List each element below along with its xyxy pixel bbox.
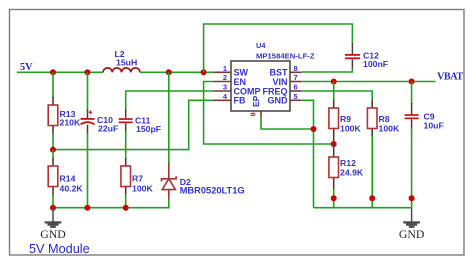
- svg-text:1: 1: [223, 64, 227, 73]
- svg-text:R7: R7: [132, 174, 143, 184]
- wire D2 column from SW: [168, 72, 170, 164]
- diode D2: [162, 163, 245, 199]
- node ground rail R7: [123, 205, 129, 211]
- resistor R14: [48, 158, 83, 195]
- wire C10 to ground rail: [87, 133, 89, 208]
- svg-text:U4: U4: [256, 41, 266, 50]
- capacitor C11: [119, 109, 161, 134]
- node SW rail junction for D2: [166, 69, 172, 75]
- pin 9 stub EP: [249, 111, 262, 118]
- svg-text:R8: R8: [379, 114, 390, 124]
- node 5V rail junction C10: [85, 69, 91, 75]
- wire BST pin to C12: [302, 69, 352, 73]
- svg-text:EN: EN: [234, 77, 247, 87]
- wire C10 column: [87, 72, 89, 110]
- capacitor C12: [345, 43, 388, 69]
- node FB junction: [50, 147, 56, 153]
- pin 6 stub: [290, 83, 302, 92]
- node EP GND junction: [311, 126, 317, 132]
- svg-text:100nF: 100nF: [363, 59, 388, 69]
- wire R12 to ground rail: [333, 189, 335, 208]
- resistor R8: [367, 100, 400, 138]
- inductor L2: [103, 49, 140, 72]
- svg-text:6: 6: [294, 83, 298, 92]
- wire D2 to ground rail corner: [53, 199, 169, 208]
- wire FB node to R14: [52, 150, 54, 159]
- svg-text:15uH: 15uH: [116, 58, 137, 68]
- svg-text:VIN: VIN: [272, 77, 287, 87]
- wire R7 to ground rail: [125, 194, 127, 208]
- wire COMP to C11: [126, 91, 214, 110]
- svg-text:R9: R9: [340, 114, 351, 124]
- wire EP to GND net: [261, 117, 314, 129]
- svg-text:7: 7: [294, 73, 298, 82]
- svg-text:3: 3: [223, 83, 227, 92]
- wire GND pin and EP down: [302, 100, 314, 207]
- node ground rail C10: [85, 205, 91, 211]
- svg-text:R12: R12: [340, 158, 356, 168]
- wire C11 to R7: [125, 131, 127, 159]
- svg-text:GND: GND: [399, 227, 425, 241]
- pin 3 stub: [214, 83, 232, 92]
- svg-text:100K: 100K: [132, 183, 153, 193]
- wire ground rail right: [314, 207, 412, 209]
- wire FREQ to R8: [302, 91, 372, 100]
- pin 8 stub: [290, 64, 302, 73]
- wire R13 to FB node: [52, 133, 54, 150]
- svg-text:FB: FB: [234, 96, 246, 106]
- svg-text:5V: 5V: [20, 62, 33, 73]
- pin 4 stub: [214, 92, 232, 101]
- svg-text:5: 5: [294, 92, 298, 101]
- node right rail C9: [409, 195, 415, 201]
- svg-text:10uF: 10uF: [424, 121, 444, 131]
- pin 5 stub: [290, 92, 302, 101]
- pin 7 stub: [290, 73, 302, 82]
- svg-text:24.9K: 24.9K: [340, 168, 364, 178]
- pin 1 stub: [214, 64, 232, 73]
- wire SW rail (L2 to pin 1): [140, 71, 214, 73]
- node VIN junction C9: [409, 79, 415, 85]
- svg-text:9: 9: [249, 112, 258, 116]
- svg-text:210K: 210K: [60, 118, 81, 128]
- svg-text:MBR0520LT1G: MBR0520LT1G: [180, 186, 245, 196]
- svg-text:8: 8: [294, 64, 298, 73]
- node 5V rail junction R13: [50, 69, 56, 75]
- resistor R13: [48, 97, 81, 134]
- svg-text:EP: EP: [251, 95, 261, 107]
- net label 5V: [20, 62, 33, 73]
- node right rail R8: [369, 195, 375, 201]
- node VIN junction R9: [331, 79, 337, 85]
- net label VBAT: [437, 72, 463, 83]
- svg-text:GND: GND: [268, 96, 289, 106]
- wire VIN to VBAT: [302, 81, 436, 83]
- wire C9 column top: [411, 82, 413, 105]
- wire C9 to ground rail: [411, 128, 413, 208]
- resistor R7: [121, 158, 154, 195]
- wire R13 column: [52, 72, 54, 98]
- node ground rail R14: [50, 205, 56, 211]
- wire R14 to ground rail: [52, 194, 54, 208]
- title 5V Module: [29, 242, 90, 256]
- svg-text:5V Module: 5V Module: [29, 242, 90, 256]
- svg-text:MP1584EN-LF-Z: MP1584EN-LF-Z: [256, 51, 315, 60]
- pin 2 stub: [214, 73, 232, 82]
- ground symbol right: [399, 208, 425, 241]
- wire EN riser: [204, 82, 334, 145]
- wire FB: [53, 100, 214, 149]
- ground symbol left: [40, 208, 66, 241]
- svg-text:100K: 100K: [340, 123, 361, 133]
- wire BST riser and top loop: [204, 24, 353, 72]
- wire R8 to ground rail: [371, 136, 373, 208]
- svg-text:150pF: 150pF: [136, 124, 161, 134]
- svg-text:100K: 100K: [379, 123, 400, 133]
- svg-text:2: 2: [223, 73, 227, 82]
- IC U4 MP1584EN-LF-Z: [231, 41, 315, 111]
- node EN junction R9 R12: [331, 141, 337, 147]
- svg-text:VBAT: VBAT: [437, 72, 463, 83]
- svg-text:GND: GND: [40, 227, 66, 241]
- svg-text:R14: R14: [60, 174, 76, 184]
- capacitor C9: [405, 103, 444, 131]
- node right rail R12: [331, 195, 337, 201]
- node SW rail junction for BST riser: [201, 69, 207, 75]
- resistor R9: [329, 100, 362, 145]
- wire 5V rail left: [17, 71, 103, 73]
- resistor R12: [329, 144, 364, 190]
- capacitor C10: [81, 109, 119, 134]
- svg-text:22uF: 22uF: [98, 124, 118, 134]
- wire R9 column top: [333, 82, 335, 101]
- svg-text:40.2K: 40.2K: [60, 183, 84, 193]
